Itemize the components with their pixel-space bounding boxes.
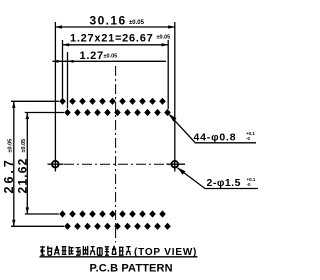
svg-text:±0.05: ±0.05 [104, 53, 118, 59]
mounting hole left (phi1.5) [52, 161, 59, 168]
pad row B (11 x phi0.8 diamonds) [64, 109, 171, 116]
title japanese (stylised strokes) [40, 246, 131, 255]
svg-text:-0: -0 [246, 136, 250, 141]
dimension line 1.27x21=26.67 [63, 44, 169, 46]
svg-text:21.62: 21.62 [16, 157, 30, 193]
pad row D (11 x phi0.8 diamonds) [64, 223, 171, 230]
extension line top (21.62, row B) [25, 112, 64, 114]
svg-text:1.27: 1.27 [80, 50, 104, 62]
svg-text:44-φ0.8: 44-φ0.8 [194, 131, 237, 143]
extension line top (26.7, row A) [11, 100, 59, 102]
svg-text:26.7: 26.7 [2, 157, 16, 193]
extension line left (30.16 / hole centerline) [54, 22, 56, 172]
leader 2-phi1.5 [178, 168, 258, 189]
svg-text:±0.05: ±0.05 [21, 139, 27, 153]
extension line left (26.67) [62, 40, 64, 98]
svg-text:30.16: 30.16 [90, 14, 127, 28]
svg-text:±0.05: ±0.05 [129, 20, 145, 26]
dimension line 1.27 with tail [53, 60, 167, 62]
leader 44-phi0.8 [169, 115, 256, 143]
title underline [40, 256, 198, 258]
svg-text:-0: -0 [247, 182, 251, 187]
left dimension line 26.7 (vertical) [13, 101, 15, 226]
svg-text:P.C.B PATTERN: P.C.B PATTERN [90, 263, 173, 275]
horizontal centerline [64, 163, 166, 165]
extension line (1.27, col 1) [67, 52, 69, 109]
svg-text:±0.05: ±0.05 [8, 139, 14, 153]
vertical centerline [115, 66, 117, 243]
extension line bottom (21.62, row C) [25, 213, 59, 215]
extension line right (30.16 / hole centerline) [174, 22, 176, 172]
mounting hole right (phi1.5) [172, 161, 179, 168]
dimension line 30.16 [55, 26, 174, 28]
svg-text:2-φ1.5: 2-φ1.5 [207, 177, 241, 189]
extension line right (26.67) [167, 40, 169, 109]
pad row C (11 x phi0.8 diamonds) [59, 210, 166, 217]
pad row A (11 x phi0.8 diamonds) [59, 98, 166, 105]
svg-text:±0.05: ±0.05 [157, 35, 171, 41]
left dimension line 21.62 (vertical) [26, 113, 28, 215]
extension line bottom (26.7, row D) [11, 225, 64, 227]
svg-text:1.27x21=26.67: 1.27x21=26.67 [70, 32, 153, 44]
